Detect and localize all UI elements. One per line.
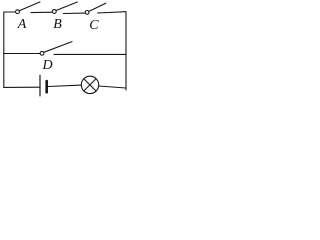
svg-text:C: C: [89, 18, 99, 33]
battery positive plate (long): [39, 75, 41, 96]
left border wire: [3, 12, 5, 87]
wire bottom-left to battery: [4, 86, 40, 88]
switch A pivot: [16, 10, 20, 14]
battery negative plate (short thick): [45, 81, 48, 92]
wire battery to lamp: [48, 85, 81, 86]
wire top-left to switch A: [4, 11, 16, 13]
wire C to top-right: [98, 12, 127, 13]
svg-text:B: B: [53, 17, 62, 32]
lamp cross stroke 2: [84, 79, 96, 91]
wire switch D to right border: [54, 53, 126, 55]
wire lamp to bottom-right: [99, 86, 126, 88]
wire B to C: [64, 12, 86, 14]
switch B pivot: [52, 10, 56, 14]
svg-text:A: A: [17, 17, 27, 32]
switch C pivot: [85, 11, 89, 15]
switch C blade: [89, 3, 106, 11]
right border wire: [125, 12, 127, 90]
switch A blade: [19, 2, 40, 11]
svg-text:D: D: [42, 58, 53, 73]
switch D blade: [44, 42, 72, 53]
wire A to B: [31, 11, 52, 13]
switch B blade: [56, 2, 77, 11]
wire left to switch D: [4, 53, 40, 55]
switch D pivot: [40, 51, 44, 55]
lamp cross stroke 1: [84, 79, 96, 91]
lamp bulb circle: [81, 76, 98, 93]
